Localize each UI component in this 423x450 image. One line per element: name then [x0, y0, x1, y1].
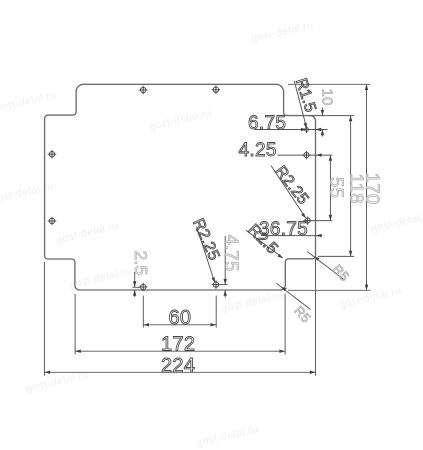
svg-text:gost-detal.ru: gost-detal.ru [338, 285, 403, 311]
leader R1.5 [292, 76, 319, 128]
hole L2 [48, 217, 57, 226]
svg-text:gost-detal.ru: gost-detal.ru [55, 220, 120, 246]
extension 60 left [142, 296, 144, 328]
extension 2.5 tick [133, 286, 140, 288]
svg-text:gost-detal.ru: gost-detal.ru [25, 369, 90, 395]
leader R2.5 [244, 221, 283, 258]
dim 4.75 [221, 235, 242, 298]
extension 172 left [74, 294, 76, 355]
dim line 6.75 [255, 129, 328, 131]
leader R2.25 upper [271, 163, 312, 218]
hole B2 [212, 280, 221, 289]
svg-text:172: 172 [161, 334, 195, 356]
svg-text:60: 60 [169, 307, 192, 329]
svg-text:gost-detal.ru: gost-detal.ru [68, 265, 133, 291]
dim 172 [75, 334, 285, 356]
leader R5 lower [276, 283, 314, 325]
svg-text:224: 224 [161, 355, 195, 377]
svg-text:10: 10 [318, 89, 335, 106]
svg-text:55: 55 [326, 177, 347, 198]
svg-text:gost-detal.ru: gost-detal.ru [250, 19, 315, 45]
dim 60 [143, 307, 216, 329]
extension 4.75 tick [220, 284, 228, 286]
leader R2.25 lower [189, 216, 222, 283]
svg-text:2.5: 2.5 [131, 251, 151, 276]
hole RA [303, 126, 310, 133]
dim 55 [326, 155, 347, 221]
dim 118 [347, 116, 368, 257]
svg-text:R2.25: R2.25 [271, 163, 311, 208]
dim 6.75 [248, 113, 321, 134]
extension hole C [311, 220, 332, 222]
svg-text:4.75: 4.75 [221, 235, 242, 272]
svg-text:4.25: 4.25 [239, 140, 277, 161]
svg-text:gost-detal.ru: gost-detal.ru [148, 107, 213, 133]
svg-text:R5: R5 [291, 303, 314, 326]
extension hole B line [278, 154, 333, 156]
dim 36.75 [259, 219, 322, 240]
extension bottom edge [288, 289, 371, 291]
hole L1 [48, 150, 57, 159]
svg-text:R1.5: R1.5 [292, 76, 319, 114]
dim 170 [363, 84, 384, 290]
hole T2 [212, 85, 221, 94]
extension 224 left [43, 262, 45, 376]
hole RB [302, 151, 310, 159]
svg-text:R5: R5 [330, 261, 353, 284]
svg-text:6.75: 6.75 [248, 113, 286, 134]
hole RC [304, 217, 312, 225]
dim 224 [44, 355, 315, 377]
svg-text:gost-detal.ru: gost-detal.ru [220, 289, 285, 315]
extension 224 right [315, 259, 317, 376]
extension top edge [288, 83, 370, 85]
extension 118 bottom [318, 255, 354, 257]
dim line 36.75 [261, 235, 322, 237]
svg-text:gost-detal.ru: gost-detal.ru [195, 423, 260, 449]
svg-text:118: 118 [347, 174, 368, 204]
extension 60 right [215, 296, 217, 328]
dim 4.25 [239, 140, 322, 161]
svg-text:gost-detal.ru: gost-detal.ru [0, 89, 58, 115]
leader R5 upper [307, 252, 352, 285]
svg-text:gost-detal.ru: gost-detal.ru [0, 180, 55, 206]
svg-text:R2.25: R2.25 [189, 216, 222, 263]
dim 10 [318, 89, 335, 137]
svg-text:gost-detal.ru: gost-detal.ru [370, 209, 423, 235]
hole B1 [139, 283, 148, 292]
dim 2.5 [131, 251, 151, 298]
extension notch edge [309, 115, 354, 117]
plate outline [45, 84, 316, 290]
extension 172 right [284, 294, 286, 355]
hole T1 [139, 86, 148, 95]
